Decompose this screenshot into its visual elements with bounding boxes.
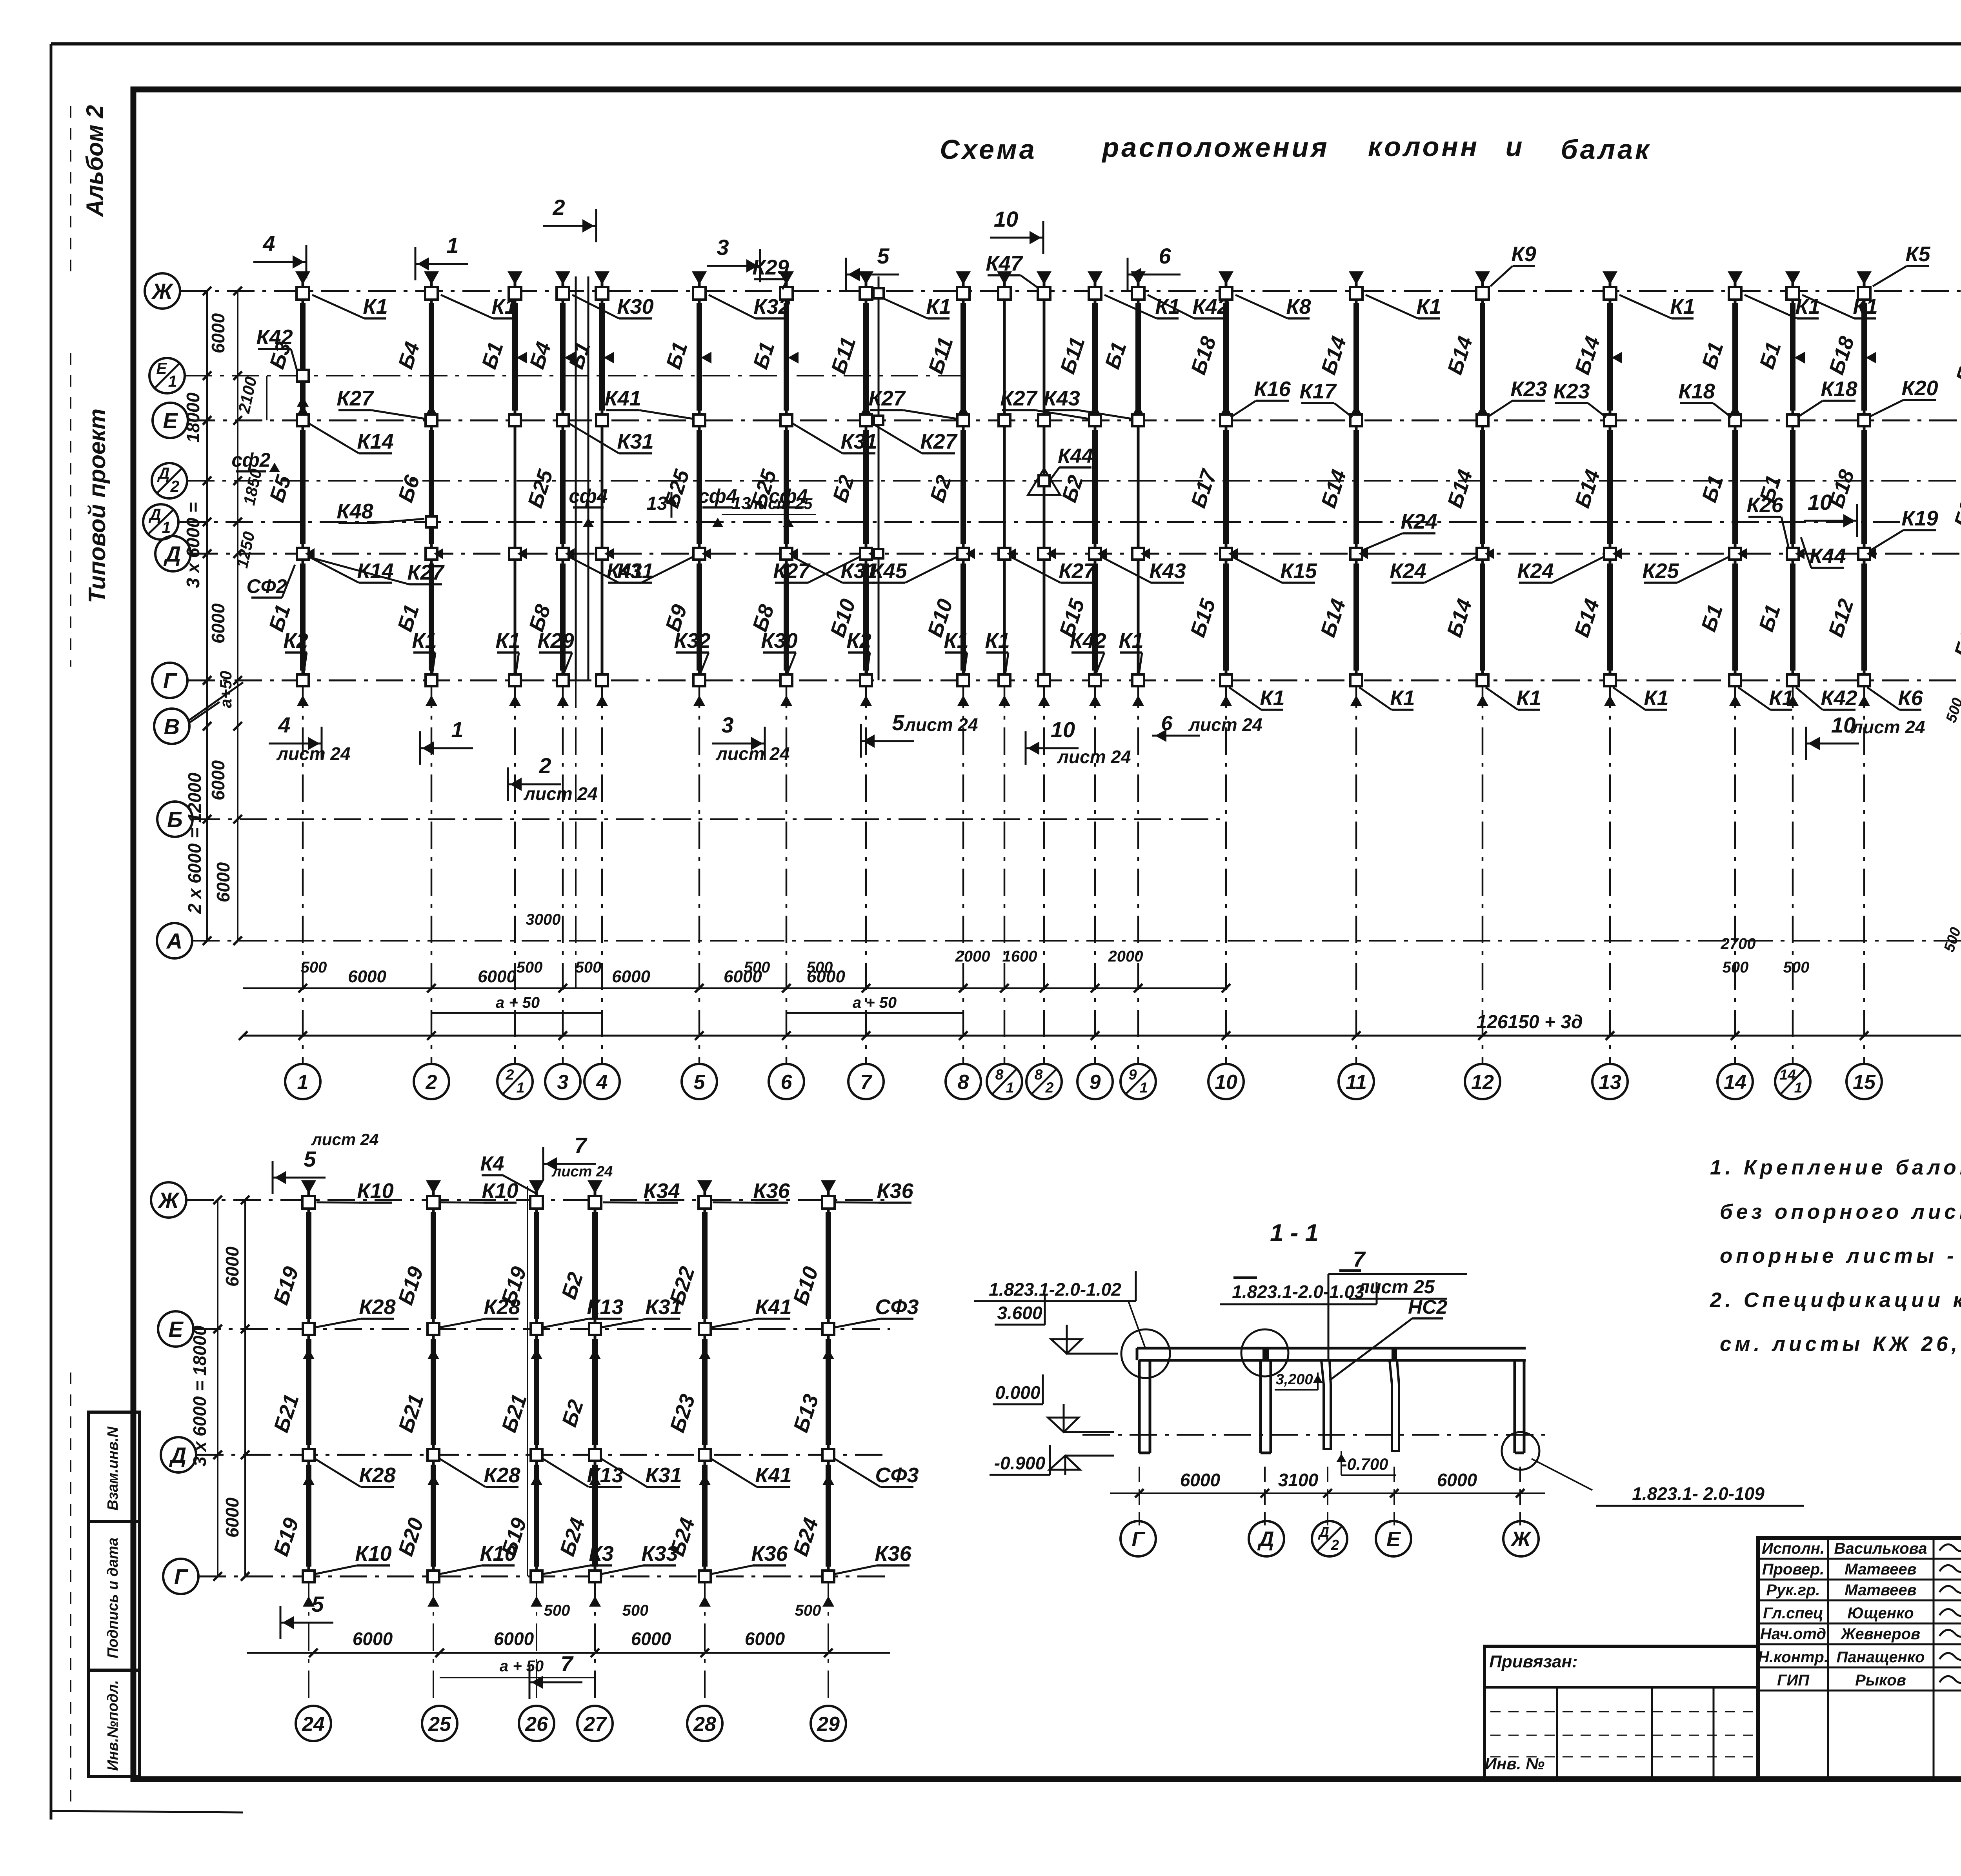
svg-text:К27: К27 (773, 559, 811, 583)
svg-text:Гл.спец: Гл.спец (1763, 1605, 1823, 1622)
column axis circle 6 (769, 1064, 804, 1099)
svg-text:7: 7 (1353, 1247, 1366, 1271)
svg-text:2: 2 (506, 1066, 514, 1083)
svg-text:К42: К42 (256, 325, 293, 349)
svg-text:лист 24: лист 24 (904, 714, 978, 735)
beam Б11 col 7 (863, 303, 869, 411)
secondary column circle 28 (687, 1706, 722, 1741)
svg-text:К42: К42 (1821, 686, 1857, 710)
beam Б1 col 4 (599, 303, 605, 411)
svg-text:500: 500 (744, 959, 770, 976)
column 9 marker at G (1089, 674, 1101, 686)
svg-text:лист 24: лист 24 (523, 783, 597, 804)
column 13 marker at G (1604, 674, 1616, 686)
secondary beam Б24 col 29 (826, 1465, 831, 1567)
column 13 marker at D (1604, 548, 1616, 560)
column 14/1 marker at E (1787, 414, 1799, 426)
column 15 marker at E (1858, 414, 1870, 426)
svg-text:а + 50: а + 50 (496, 994, 540, 1011)
svg-text:Схема: Схема (940, 134, 1037, 165)
column 14 top marker (1728, 271, 1743, 285)
svg-text:14: 14 (1724, 1071, 1746, 1094)
svg-text:К28: К28 (359, 1463, 395, 1487)
svg-text:2: 2 (426, 1071, 437, 1094)
column 1 marker at D (297, 548, 309, 560)
svg-text:К23: К23 (1510, 377, 1547, 401)
svg-text:3100: 3100 (1278, 1470, 1319, 1490)
svg-text:К26: К26 (1746, 493, 1783, 517)
beam Б1 col 6 (784, 303, 789, 411)
column 8 marker at E (957, 414, 969, 426)
row axis Д/1 (143, 504, 178, 540)
svg-text:К6: К6 (1898, 686, 1923, 710)
K42 on axis E1 col 1 (297, 370, 309, 382)
svg-text:1 - 1: 1 - 1 (1270, 1220, 1319, 1247)
svg-text:Е: Е (1386, 1527, 1401, 1551)
svg-text:К5: К5 (1905, 242, 1930, 266)
svg-text:6000: 6000 (494, 1629, 534, 1649)
beam Б9 col 5 (697, 564, 702, 671)
svg-text:Б: Б (167, 807, 183, 832)
svg-text:26: 26 (525, 1713, 548, 1736)
svg-text:6000: 6000 (631, 1629, 671, 1649)
title block signature table (1758, 1538, 1961, 1778)
secondary column 28 line (704, 1186, 706, 1576)
svg-text:10: 10 (1215, 1071, 1237, 1094)
column axis circle 12 (1465, 1064, 1500, 1099)
svg-text:К27: К27 (1059, 559, 1096, 583)
svg-text:К10: К10 (355, 1542, 391, 1565)
svg-text:К41: К41 (755, 1295, 791, 1319)
beam Б8 col 3 (560, 564, 566, 671)
svg-text:3000: 3000 (526, 911, 561, 928)
svg-text:К16: К16 (1254, 377, 1291, 401)
secondary column 29 line (827, 1186, 830, 1576)
svg-text:А: А (166, 929, 182, 953)
column 8 marker at D (957, 548, 969, 560)
column axis circle 13 (1592, 1064, 1628, 1099)
svg-text:К45: К45 (870, 559, 907, 583)
svg-text:К29: К29 (537, 629, 574, 653)
svg-text:8: 8 (958, 1071, 969, 1094)
svg-text:опорные листы - 130 х 10,: опорные листы - 130 х 10, l = 300. (1720, 1244, 1961, 1267)
column 8 marker at G (957, 674, 969, 686)
svg-text:К24: К24 (1517, 559, 1554, 583)
svg-text:Рук.гр.: Рук.гр. (1766, 1582, 1820, 1599)
row axis Е (153, 403, 188, 438)
svg-text:К27: К27 (920, 430, 958, 453)
column 8/1 line (1003, 276, 1006, 680)
beam Б2 col 7 (863, 430, 869, 544)
svg-text:27: 27 (583, 1713, 607, 1736)
svg-text:К28: К28 (359, 1295, 395, 1319)
svg-text:4: 4 (278, 713, 290, 737)
svg-text:500: 500 (301, 959, 327, 976)
column 8/2 line (1043, 276, 1046, 680)
section ground line 0.000 (1082, 1434, 1545, 1436)
svg-text:500: 500 (517, 959, 543, 976)
svg-text:К1: К1 (1155, 295, 1180, 318)
K44 triangle near col 8/2 (1039, 475, 1050, 486)
secondary beam Б21 col 25 (431, 1339, 436, 1445)
svg-text:13: 13 (646, 493, 668, 514)
svg-text:4: 4 (262, 231, 275, 256)
svg-text:Е: Е (163, 408, 178, 433)
column 11 marker at G (1350, 674, 1362, 686)
column 9 marker at E (1089, 414, 1101, 426)
beam Б1 col 14 (1732, 564, 1738, 671)
column 9/1 marker at G (1132, 674, 1144, 686)
svg-text:лист 24: лист 24 (1188, 714, 1262, 735)
beam Б15 col 10 (1223, 564, 1229, 671)
column 10 marker at D (1220, 548, 1232, 560)
svg-text:7: 7 (860, 1071, 873, 1094)
svg-text:6000: 6000 (1180, 1470, 1221, 1490)
svg-text:К30: К30 (761, 629, 797, 653)
svg-text:5: 5 (304, 1147, 316, 1171)
svg-text:1: 1 (168, 372, 177, 390)
section stanchion NS2 (D/2) (1321, 1360, 1331, 1449)
column 14/1 line (1792, 276, 1794, 680)
secondary column 25 top marker (426, 1180, 441, 1194)
svg-text:К14: К14 (357, 430, 393, 453)
secondary beam Б22 col 28 (702, 1212, 708, 1319)
beam Б1 col 14 (1732, 303, 1738, 411)
svg-text:3.600: 3.600 (997, 1303, 1042, 1323)
svg-text:К24: К24 (1401, 510, 1437, 533)
svg-text:К44: К44 (1058, 445, 1093, 467)
svg-text:балак: балак (1561, 134, 1651, 165)
column 5 top marker (692, 271, 707, 285)
svg-text:11: 11 (1346, 1071, 1367, 1094)
svg-text:К28: К28 (484, 1463, 520, 1487)
beam Б11 col 8 (960, 303, 966, 411)
svg-text:12: 12 (1471, 1071, 1494, 1094)
svg-text:6000: 6000 (222, 1497, 242, 1538)
beam Б1 col 9/1 (1135, 303, 1141, 411)
row axis Г (152, 663, 187, 698)
column 11 line (1355, 276, 1358, 680)
svg-text:Василькова: Василькова (1834, 1540, 1927, 1557)
column 9 marker at D (1089, 548, 1101, 560)
extra closely spaced column lines near 3-4 (575, 276, 577, 680)
left margin stamp boxes (89, 1412, 140, 1776)
secondary column circle 26 (519, 1706, 554, 1741)
column axis circle 3 (545, 1064, 580, 1099)
svg-text:Д: Д (164, 542, 181, 566)
beam Б1 col 14 (1732, 430, 1738, 544)
svg-text:13: 13 (1599, 1071, 1621, 1094)
svg-text:6000: 6000 (353, 1629, 393, 1649)
svg-text:Г: Г (1131, 1527, 1146, 1551)
column 4 top marker (595, 271, 609, 285)
column 8/1 top marker (997, 271, 1012, 285)
svg-text:сф2: сф2 (231, 449, 270, 471)
column 3 top marker (555, 271, 570, 285)
row axis Ж (145, 273, 180, 309)
secondary beam Б21 col 26 (534, 1339, 539, 1445)
svg-text:К32: К32 (674, 629, 710, 653)
column 8/2 top marker (1037, 271, 1051, 285)
column axis circle 8/2 (1026, 1064, 1062, 1099)
secondary column circle 27 (577, 1706, 613, 1741)
svg-text:2000: 2000 (1108, 948, 1143, 965)
svg-text:28: 28 (693, 1713, 716, 1736)
svg-text:К1: К1 (363, 295, 387, 318)
column 6 marker at G (780, 674, 792, 686)
column 2/1 marker at D (509, 548, 521, 560)
svg-text:К1: К1 (1260, 686, 1284, 710)
column 3 marker at D (557, 548, 569, 560)
svg-text:10: 10 (1051, 717, 1075, 742)
section column G (1138, 1360, 1141, 1453)
svg-text:К47: К47 (986, 252, 1023, 275)
svg-text:5: 5 (694, 1071, 706, 1094)
beam Б12 col 15 (1861, 564, 1867, 671)
svg-text:Взам.инв.N: Взам.инв.N (105, 1426, 121, 1511)
svg-text:5: 5 (877, 244, 890, 268)
column 12 top marker (1475, 271, 1490, 285)
column 2/1 marker at G (509, 674, 521, 686)
column 8/2 marker at E (1038, 414, 1050, 426)
bottom dimension line with 6000 spacings left group (243, 987, 969, 989)
column 9/1 line (1137, 276, 1140, 680)
column 9 line (1094, 276, 1097, 680)
svg-text:К15: К15 (1280, 559, 1317, 583)
beam Б1 col 2/1 (512, 303, 518, 411)
svg-text:Провер.: Провер. (1762, 1561, 1825, 1578)
privyazan box (1484, 1646, 1758, 1778)
column axis circle 9/1 (1121, 1064, 1156, 1099)
svg-text:Ющенко: Ющенко (1847, 1605, 1914, 1622)
svg-text:2: 2 (552, 195, 565, 220)
column axis circle 5 (682, 1064, 717, 1099)
svg-text:К1: К1 (1769, 686, 1794, 710)
svg-text:500: 500 (544, 1602, 570, 1619)
column axis circle 9 (1077, 1064, 1113, 1099)
svg-text:лист 24: лист 24 (1057, 747, 1131, 767)
column axis circle 2/1 (497, 1064, 533, 1099)
svg-text:1: 1 (1140, 1079, 1148, 1096)
column 15 line (1863, 276, 1866, 680)
beam Б3 col 1 (300, 303, 306, 411)
column 14/1 marker at D (1787, 548, 1799, 560)
beam Б25 col 3 (560, 430, 566, 544)
svg-text:а + 50: а + 50 (500, 1658, 544, 1675)
svg-text:К1: К1 (1390, 686, 1415, 710)
column 9/1 marker at E (1132, 414, 1144, 426)
svg-text:Привязан:: Привязан: (1489, 1652, 1577, 1671)
column 8/2 marker at D (1038, 548, 1050, 560)
svg-text:Исполн.: Исполн. (1762, 1540, 1825, 1557)
beam Б14 col 12 (1480, 564, 1485, 671)
svg-text:К1: К1 (1644, 686, 1668, 710)
secondary beam Б19 col 26 (534, 1212, 539, 1319)
svg-text:СФ3: СФ3 (875, 1295, 919, 1319)
column axis circle 11 (1339, 1064, 1374, 1099)
svg-text:1.823.1-2.0-1.03: 1.823.1-2.0-1.03 (1232, 1282, 1364, 1302)
svg-text:лист 24: лист 24 (1851, 717, 1925, 737)
svg-text:10: 10 (1808, 490, 1832, 514)
secondary column 27 top marker (588, 1180, 602, 1194)
column 3 line (562, 276, 564, 680)
column 5 marker at D (693, 548, 705, 560)
svg-text:6: 6 (781, 1071, 793, 1094)
svg-text:лист 24: лист 24 (551, 1163, 613, 1180)
column 6 marker at E (780, 414, 792, 426)
secondary beam Б10 col 29 (826, 1212, 831, 1319)
column 12 marker at E (1477, 414, 1488, 426)
beam Б14 col 12 (1480, 430, 1485, 544)
svg-text:расположения: расположения (1101, 132, 1329, 163)
column 5 marker at G (693, 674, 705, 686)
column 7 marker at D (860, 548, 872, 560)
section dimension line (1110, 1492, 1545, 1494)
section column D (1259, 1360, 1262, 1453)
column 8/2 marker at G (1038, 674, 1050, 686)
svg-text:Рыков: Рыков (1855, 1672, 1906, 1689)
svg-text:6000: 6000 (213, 862, 233, 902)
column 12 marker at D (1477, 548, 1488, 560)
column 11 marker at D (1350, 548, 1362, 560)
secondary column circle 25 (422, 1706, 457, 1741)
beam Б1 col 5 (697, 303, 702, 411)
svg-text:К36: К36 (751, 1542, 788, 1565)
svg-text:К36: К36 (875, 1542, 911, 1565)
svg-text:2. Спецификации к схемам р: 2. Спецификации к схемам расположения ко… (1710, 1289, 1961, 1312)
svg-text:К34: К34 (643, 1179, 680, 1203)
svg-text:1.823.1- 2.0-109: 1.823.1- 2.0-109 (1632, 1483, 1765, 1504)
svg-text:5: 5 (311, 1592, 324, 1616)
column 9/1 marker at D (1132, 548, 1144, 560)
column 1 line (302, 276, 304, 680)
svg-text:К18: К18 (1678, 380, 1715, 403)
column axis circle 4 (584, 1064, 620, 1099)
svg-text:6000: 6000 (208, 313, 228, 353)
svg-text:Нач.отд: Нач.отд (1760, 1625, 1826, 1643)
svg-text:без опорного листа, а: без опорного листа, а к колоннам сеч. 20… (1720, 1200, 1961, 1223)
column 10 marker at G (1220, 674, 1232, 686)
column 8/1 marker at G (999, 674, 1010, 686)
beam Б14 col 13 (1607, 430, 1613, 544)
svg-text:10: 10 (994, 207, 1018, 231)
svg-text:1.823.1-2.0-1.02: 1.823.1-2.0-1.02 (989, 1279, 1121, 1300)
column 13 marker at E (1604, 414, 1616, 426)
svg-text:К41: К41 (606, 559, 643, 583)
beam Б14 col 11 (1353, 564, 1359, 671)
secondary column circle 24 (296, 1706, 331, 1741)
svg-text:К1: К1 (1416, 295, 1441, 318)
K48 marker col 2 at D1 (426, 516, 437, 527)
column 2/1 line (514, 276, 517, 680)
column 11 marker at E (1350, 414, 1362, 426)
svg-text:3,200: 3,200 (1275, 1371, 1313, 1388)
svg-text:К17: К17 (1299, 380, 1337, 403)
svg-text:-0.700: -0.700 (1341, 1455, 1388, 1473)
column 2 marker at E (426, 414, 437, 426)
section joint circles (1121, 1329, 1170, 1378)
row axis Д/2 (152, 463, 187, 498)
extra line near column 7 (878, 276, 880, 680)
svg-text:К31: К31 (840, 430, 877, 453)
svg-text:7: 7 (574, 1133, 588, 1158)
svg-text:лист 25: лист 25 (1357, 1277, 1435, 1298)
sheet outer border (51, 42, 1961, 45)
beam Б5 col 1 (300, 430, 306, 544)
svg-text:К18: К18 (1821, 377, 1857, 401)
row axis Е/1 (149, 358, 185, 393)
svg-text:сф4: сф4 (569, 485, 608, 507)
svg-text:6000: 6000 (348, 967, 386, 986)
column 1 marker at G (297, 674, 309, 686)
svg-text:Е: Е (168, 1317, 184, 1342)
beam Б4 col 3 (560, 303, 566, 411)
secondary plan row axis Г (163, 1559, 198, 1594)
svg-text:Ж: Ж (1510, 1527, 1532, 1551)
svg-text:Матвеев: Матвеев (1845, 1561, 1916, 1578)
column 12 line (1481, 276, 1484, 680)
svg-text:Д: Д (169, 1443, 186, 1467)
svg-text:К1: К1 (495, 629, 520, 653)
secondary beam Б21 col 24 (306, 1339, 311, 1445)
column 2/1 marker at E (509, 414, 521, 426)
svg-text:Д: Д (148, 505, 161, 524)
svg-text:К27: К27 (868, 387, 906, 410)
svg-text:Г: Г (174, 1564, 189, 1589)
secondary beam Б20 col 25 (431, 1465, 436, 1567)
svg-text:колонн: колонн (1368, 131, 1479, 162)
svg-text:8: 8 (995, 1066, 1004, 1083)
column 8/1 marker at D (999, 548, 1010, 560)
row axis А (157, 923, 192, 958)
secondary plan left dimension chain (217, 1200, 218, 1576)
svg-text:К2: К2 (283, 629, 308, 653)
svg-text:1: 1 (517, 1079, 525, 1096)
beam Б14 col 13 (1607, 564, 1613, 671)
svg-text:и: и (1506, 131, 1523, 162)
svg-text:9: 9 (1090, 1071, 1101, 1094)
svg-text:1: 1 (297, 1071, 309, 1094)
svg-text:К4: К4 (480, 1153, 504, 1175)
svg-text:Н.контр.: Н.контр. (1758, 1649, 1828, 1666)
column 3 marker at E (557, 414, 569, 426)
section column Ж (1513, 1360, 1516, 1453)
section column E (1390, 1360, 1399, 1451)
beam Б25 col 6 (784, 430, 789, 544)
svg-text:К2: К2 (846, 629, 871, 653)
svg-text:13: 13 (732, 494, 751, 513)
secondary beam Б2 col 27 (592, 1212, 598, 1319)
secondary beam Б19 col 26 (534, 1465, 539, 1567)
column 5 marker at E (693, 414, 705, 426)
svg-text:К23: К23 (1553, 380, 1590, 403)
svg-text:500: 500 (575, 959, 602, 976)
svg-text:6000: 6000 (222, 1246, 242, 1287)
beam Б14 col 11 (1353, 303, 1359, 411)
svg-text:Жевнеров: Жевнеров (1840, 1625, 1920, 1643)
svg-text:К36: К36 (753, 1179, 790, 1203)
beam Б15 col 9 (1092, 564, 1098, 671)
beam Б1 col 1 (300, 564, 306, 671)
svg-text:500: 500 (795, 1602, 821, 1619)
secondary column 29 top marker (821, 1180, 836, 1194)
svg-text:6000: 6000 (1437, 1470, 1477, 1490)
column axis circle 1 (285, 1064, 320, 1099)
svg-text:К20: К20 (1901, 376, 1938, 400)
beam Б10 col 8 (960, 564, 966, 671)
svg-text:2: 2 (538, 753, 551, 778)
column 7 top marker (859, 271, 873, 285)
